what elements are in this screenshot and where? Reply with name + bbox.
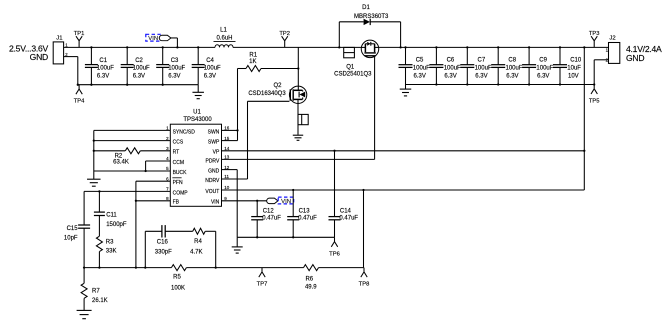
connector J1 (53, 42, 63, 64)
svg-text:16: 16 (224, 126, 230, 131)
connector J2 (609, 43, 620, 64)
svg-text:TP6: TP6 (329, 251, 340, 257)
svg-text:C7: C7 (478, 58, 486, 64)
svg-text:C11: C11 (106, 212, 117, 218)
testpoint TP1 (78, 41, 80, 48)
svg-text:10uF: 10uF (567, 65, 581, 71)
node R3 bottom junction (98, 266, 100, 268)
node C8 top junction (497, 46, 499, 48)
svg-text:VOUT: VOUT (205, 189, 219, 195)
wire pin6 PFN to FB vertical (136, 180, 170, 182)
net label VIN (input side, selected) (146, 34, 161, 41)
wire SW rail from Q1 to output rail (379, 46, 609, 48)
node C3 top junction (162, 46, 164, 48)
svg-text:6.3V: 6.3V (506, 73, 518, 79)
svg-text:100uF: 100uF (444, 65, 461, 71)
svg-text:6.3V: 6.3V (133, 74, 145, 80)
node C5 top junction (404, 46, 406, 48)
svg-text:12: 12 (224, 165, 230, 170)
svg-text:C1: C1 (99, 58, 107, 64)
resistor R7 26.1K (83, 268, 85, 284)
svg-text:26.1K: 26.1K (92, 298, 108, 304)
svg-text:0.6uH: 0.6uH (216, 36, 232, 42)
svg-text:100uF: 100uF (168, 66, 185, 72)
svg-text:6.3V: 6.3V (475, 73, 487, 79)
testpoint TP5 (593, 85, 595, 89)
svg-text:C15: C15 (67, 226, 79, 232)
resistor R4 4.7K (193, 228, 206, 234)
svg-text:C4: C4 (206, 58, 214, 64)
svg-text:C9: C9 (539, 58, 547, 64)
capacitor C16 330pF (145, 230, 162, 232)
node C10 bottom junction (559, 83, 561, 85)
node output ground end junction (593, 83, 595, 85)
svg-text:100uF: 100uF (413, 65, 430, 71)
wire Q2 drain to SW rail (297, 47, 299, 86)
node C9 bottom junction (528, 83, 530, 85)
wire Q1 gate to PDRV (374, 56, 376, 160)
ground symbol at U1 left bus (93, 171, 95, 179)
svg-text:TP2: TP2 (279, 31, 290, 37)
svg-text:6.3V: 6.3V (537, 73, 549, 79)
capacitor C8 100uF 6.3V (497, 47, 499, 64)
wire pin16 SWN stub (222, 129, 238, 131)
resistor R6 49.9 (304, 265, 319, 271)
node C2 top junction (126, 46, 128, 48)
node R1 to Q2 drain junction (297, 67, 299, 69)
node C15/R7 junction (83, 266, 85, 268)
node C2 bottom junction (126, 84, 128, 86)
svg-text:11: 11 (224, 174, 229, 179)
svg-text:6.3V: 6.3V (204, 74, 216, 80)
svg-text:CSD16340Q3: CSD16340Q3 (248, 91, 286, 97)
svg-text:RT: RT (173, 150, 180, 156)
svg-text:GND: GND (208, 169, 220, 175)
svg-text:VIN: VIN (148, 36, 158, 42)
svg-text:63.4K: 63.4K (113, 159, 129, 165)
capacitor C9 100uF 6.3V (528, 47, 530, 64)
node RT junction (93, 150, 95, 152)
node C12 top junction (256, 200, 258, 202)
svg-text:6.3V: 6.3V (414, 73, 426, 79)
svg-text:GND: GND (30, 52, 48, 62)
svg-text:C6: C6 (447, 58, 455, 64)
svg-text:TP8: TP8 (359, 282, 370, 288)
svg-text:J1: J1 (56, 35, 62, 41)
svg-text:VIN: VIN (211, 200, 220, 206)
node D1 cathode junction (399, 46, 401, 48)
wire input rail from J1 pin1 to L1 (64, 46, 215, 48)
svg-text:R1: R1 (249, 53, 257, 59)
node C1 bottom junction (90, 84, 92, 86)
svg-text:SWN: SWN (208, 129, 220, 135)
wire J2 pin2 to ground rail (594, 59, 608, 61)
node C11 top junction (98, 190, 100, 192)
wire pin1 SYNC/SD to ground bus (94, 129, 171, 131)
svg-text:100uF: 100uF (204, 66, 221, 72)
node FB vertical bottom junction (135, 266, 137, 268)
node FB junction (135, 200, 137, 202)
node C4 top junction (197, 46, 199, 48)
capacitor C13 0.47uF (292, 190, 294, 217)
Q1 pad box (344, 47, 355, 57)
wire FB vertical down to feedback line (135, 181, 137, 267)
wire VIN flag to input rail (171, 37, 178, 39)
wire pin9 VIN (222, 200, 269, 202)
svg-text:1K: 1K (249, 59, 256, 65)
svg-text:MBRS360T3: MBRS360T3 (354, 14, 389, 20)
node C7 bottom junction (466, 83, 468, 85)
wire feedback line (84, 267, 171, 269)
svg-text:CSD25401Q3: CSD25401Q3 (334, 71, 372, 77)
wire SWN/SWP vertical to R1 (237, 69, 239, 141)
capacitor C10 10uF 10V (559, 47, 561, 64)
svg-text:FB: FB (173, 200, 180, 206)
svg-text:100uF: 100uF (475, 65, 492, 71)
svg-text:VIN: VIN (281, 199, 291, 205)
resistor R5 100K (171, 265, 186, 271)
ground symbol at C4 (197, 85, 199, 93)
svg-text:4.7K: 4.7K (190, 249, 202, 255)
node VIN flag junction (176, 46, 178, 48)
node C13 top junction (292, 189, 294, 191)
svg-text:6.3V: 6.3V (444, 73, 456, 79)
capacitor C4 100uF 6.3V (197, 47, 199, 64)
svg-text:100uF: 100uF (506, 65, 523, 71)
svg-text:100uF: 100uF (97, 66, 114, 72)
feed-forward loop right vertical (215, 231, 217, 267)
wire pin15 SWP stub (222, 140, 238, 142)
Q2 pad box (298, 114, 308, 124)
svg-text:C5: C5 (416, 58, 424, 64)
svg-text:13: 13 (224, 155, 230, 160)
node C3 bottom junction (162, 84, 164, 86)
net label VIN (pin 9, selected) (278, 197, 294, 204)
capacitor C1 100uF 6.3V (90, 47, 92, 64)
node C6 bottom junction (435, 83, 437, 85)
feed-forward loop left vertical (144, 231, 146, 267)
testpoint TP7 (261, 268, 263, 272)
node D1 anode junction (338, 46, 340, 48)
capacitor C5 100uF 6.3V (405, 47, 407, 64)
svg-text:6.3V: 6.3V (97, 74, 109, 80)
ground symbol at R7 (77, 309, 92, 311)
svg-text:BUCK: BUCK (173, 170, 188, 176)
svg-text:D1: D1 (362, 5, 370, 11)
testpoint TP3 (593, 41, 595, 48)
capacitor C6 100uF 6.3V (435, 47, 437, 64)
svg-text:100uF: 100uF (133, 66, 150, 72)
ground symbol at Q2 source (293, 134, 303, 136)
svg-text:TP5: TP5 (589, 99, 600, 105)
testpoint TP2 (284, 41, 286, 48)
svg-text:6.3V: 6.3V (168, 74, 180, 80)
svg-text:33K: 33K (106, 249, 117, 255)
wire pin11 NDRV (222, 178, 248, 180)
resistor R2 63.4K on RT (94, 150, 125, 152)
svg-text:SYNC/SD: SYNC/SD (173, 129, 196, 135)
wire pin7 COMP (84, 190, 170, 192)
capacitor C11 1500pF (98, 191, 100, 212)
svg-text:0.47uF: 0.47uF (262, 215, 281, 221)
svg-text:TP1: TP1 (74, 31, 85, 37)
wire bypass cap ground rail (237, 236, 334, 238)
node C14 top junction (333, 150, 335, 152)
node VOUT divider junction (362, 189, 364, 191)
svg-text:C14: C14 (340, 209, 352, 215)
svg-text:TP7: TP7 (257, 282, 268, 288)
capacitor C7 100uF 6.3V (466, 47, 468, 64)
wire J1 pin2 to ground line (64, 56, 78, 58)
svg-text:C13: C13 (299, 209, 311, 215)
svg-text:15: 15 (224, 136, 230, 141)
wire output ground rail (406, 84, 595, 86)
svg-text:PFN: PFN (173, 180, 183, 186)
svg-text:0.47uF: 0.47uF (339, 215, 358, 221)
node C6 top junction (435, 46, 437, 48)
node CCM junction (144, 170, 146, 172)
svg-text:C8: C8 (508, 58, 516, 64)
capacitor C12 0.47uF (256, 201, 258, 217)
svg-text:100uF: 100uF (536, 65, 553, 71)
wire pin10 VOUT line (222, 189, 585, 191)
svg-text:1500pF: 1500pF (106, 222, 127, 228)
svg-text:Q1: Q1 (346, 65, 355, 71)
svg-text:C10: C10 (570, 58, 582, 64)
ground symbol at output (405, 85, 407, 90)
wire pin12 GND stub (222, 169, 238, 171)
capacitor C3 100uF 6.3V (162, 47, 164, 64)
svg-text:330pF: 330pF (155, 249, 172, 255)
svg-text:NDRV: NDRV (205, 178, 220, 184)
capacitor C14 0.47uF (334, 151, 336, 217)
net flag VIN at pin 9 (267, 198, 278, 204)
wire pin8 FB (136, 200, 170, 202)
svg-text:GND: GND (626, 53, 644, 63)
svg-text:PDRV: PDRV (205, 158, 219, 164)
svg-text:0.47uF: 0.47uF (298, 215, 317, 221)
node VP to output junction (583, 150, 585, 152)
svg-text:10pF: 10pF (64, 236, 78, 242)
testpoint TP8 (363, 268, 365, 272)
wire input ground line (78, 84, 198, 86)
testpoint TP4 (78, 85, 80, 89)
svg-text:CCM: CCM (173, 160, 184, 166)
svg-text:TP4: TP4 (74, 99, 85, 105)
svg-text:CCS: CCS (173, 140, 184, 146)
capacitor C15 10pF (83, 191, 85, 225)
wire pin14 VP line (222, 150, 585, 152)
node J1 pin2 / TP4 junction (77, 84, 79, 86)
node C9 top junction (528, 46, 530, 48)
node C1 top junction (90, 46, 92, 48)
svg-text:R6: R6 (305, 276, 313, 282)
wire pin2 CCS to ground bus (94, 140, 171, 142)
svg-text:10V: 10V (568, 73, 579, 79)
testpoint TP6 (334, 237, 336, 241)
svg-text:L1: L1 (220, 28, 227, 34)
node C7 top junction (466, 46, 468, 48)
wire pin5 BUCK to ground bus (94, 170, 171, 172)
svg-text:TP3: TP3 (589, 31, 600, 37)
svg-text:100K: 100K (171, 285, 185, 291)
svg-text:C16: C16 (157, 239, 169, 245)
svg-text:R5: R5 (173, 274, 181, 280)
svg-text:49.9: 49.9 (305, 284, 317, 290)
net flag VIN pointing right (159, 35, 171, 40)
svg-text:SWP: SWP (208, 140, 220, 146)
svg-text:C2: C2 (135, 58, 143, 64)
svg-text:R7: R7 (92, 288, 100, 294)
svg-text:Q2: Q2 (273, 83, 282, 89)
wire SW rail from L1 to Q1 (233, 46, 361, 48)
node pin16 junction (236, 129, 238, 131)
wire pin13 PDRV line (222, 158, 375, 160)
svg-text:C12: C12 (263, 209, 275, 215)
wire feedback to VOUT sense (363, 190, 365, 268)
svg-text:14: 14 (224, 146, 230, 151)
node C10 top junction (559, 46, 561, 48)
svg-text:C3: C3 (171, 58, 179, 64)
node VOUT rail junction (583, 46, 585, 48)
svg-text:10: 10 (224, 185, 230, 190)
svg-text:COMP: COMP (173, 190, 189, 196)
ground symbol at bypass rail (236, 237, 238, 247)
svg-text:R3: R3 (106, 239, 114, 245)
capacitor C2 100uF 6.3V (126, 47, 128, 64)
svg-text:VP: VP (213, 150, 220, 156)
wire GND vertical (236, 170, 238, 238)
wire ground bus vertical (93, 130, 95, 171)
svg-text:U1: U1 (193, 110, 201, 116)
svg-text:R4: R4 (194, 239, 202, 245)
svg-text:J2: J2 (609, 36, 615, 42)
wire pin4 CCM down to BUCK line (146, 160, 171, 162)
node pin2 junction (93, 139, 95, 141)
svg-text:TPS43000: TPS43000 (183, 117, 212, 123)
resistor R3 33K (96, 236, 102, 251)
node C8 bottom junction (497, 83, 499, 85)
wire Q2 source to ground (297, 104, 299, 135)
